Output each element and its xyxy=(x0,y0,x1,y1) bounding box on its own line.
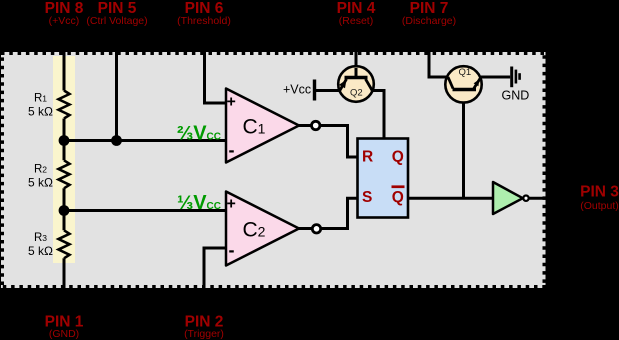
svg-text:+: + xyxy=(227,94,236,111)
svg-text:Q: Q xyxy=(392,189,404,206)
svg-text:-: - xyxy=(229,140,235,160)
svg-text:+Vcc: +Vcc xyxy=(283,83,311,97)
svg-text:5 kΩ: 5 kΩ xyxy=(28,105,53,119)
svg-text:(+Vcc): (+Vcc) xyxy=(49,15,80,27)
svg-text:GND: GND xyxy=(502,89,530,103)
svg-text:5 kΩ: 5 kΩ xyxy=(28,176,53,190)
svg-text:(Discharge): (Discharge) xyxy=(402,15,456,27)
svg-text:Q1: Q1 xyxy=(459,67,472,78)
svg-text:+: + xyxy=(227,196,236,213)
svg-text:(Output): (Output) xyxy=(580,200,619,212)
svg-text:(Reset): (Reset) xyxy=(339,15,373,27)
svg-text:(Threshold): (Threshold) xyxy=(177,15,231,27)
svg-text:R3: R3 xyxy=(34,232,47,244)
svg-text:Q2: Q2 xyxy=(350,88,363,99)
svg-text:(GND): (GND) xyxy=(49,328,79,340)
svg-text:Q: Q xyxy=(392,149,404,166)
svg-text:5 kΩ: 5 kΩ xyxy=(28,244,53,258)
svg-text:R2: R2 xyxy=(34,164,47,176)
svg-text:PIN 3: PIN 3 xyxy=(580,184,619,201)
svg-text:(Trigger): (Trigger) xyxy=(184,328,224,340)
svg-text:-: - xyxy=(229,240,235,260)
svg-text:(Ctrl Voltage): (Ctrl Voltage) xyxy=(86,15,147,27)
svg-text:R: R xyxy=(362,149,373,166)
svg-text:S: S xyxy=(362,189,372,206)
svg-text:R1: R1 xyxy=(34,93,47,105)
